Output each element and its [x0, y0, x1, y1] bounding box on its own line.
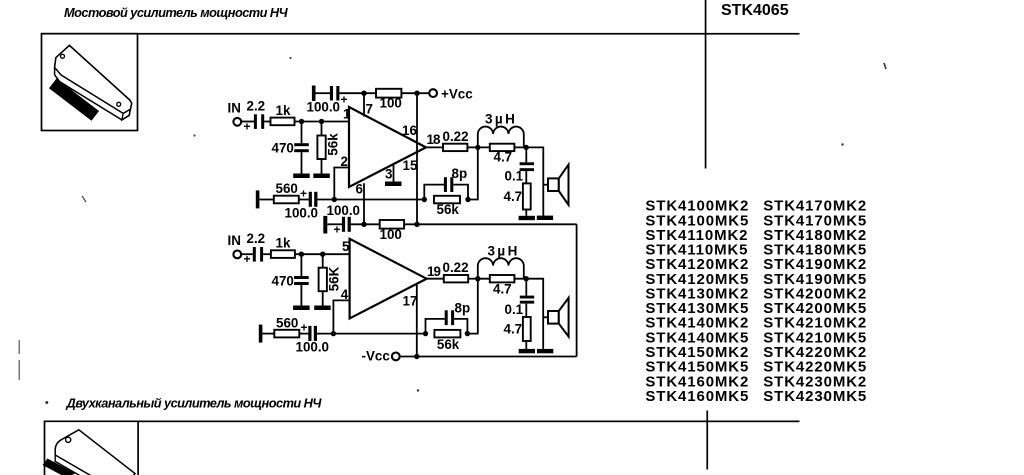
feedback rail wire (top) [317, 199, 424, 201]
svg-text:8p: 8p [455, 301, 471, 316]
mid rail wire right [404, 223, 576, 225]
svg-text:2.2: 2.2 [247, 231, 266, 246]
wire Vcc rail [339, 92, 376, 94]
svg-text:4.7: 4.7 [493, 282, 512, 297]
svg-text:560: 560 [276, 315, 298, 330]
svg-text:+Vcc: +Vcc [441, 87, 473, 102]
resistor 4.7 (zobel bottom) [504, 304, 531, 349]
output wire pin 18 [426, 146, 443, 148]
svg-text:0.1: 0.1 [505, 169, 524, 184]
wire to op-amp pin 1 [295, 121, 350, 123]
feedback riser from output (bottom) [467, 279, 477, 334]
wire input to cap (bottom) [241, 253, 253, 255]
svg-text:+: + [244, 120, 251, 134]
node 56k fb right (top) [465, 197, 470, 202]
+Vcc terminal [429, 87, 473, 102]
wire cap to resistor (bottom) [263, 253, 271, 255]
svg-text:470: 470 [272, 141, 294, 156]
resistor 4.7 parallel (top) [490, 144, 515, 165]
package box (bottom, clipped) [45, 421, 139, 475]
svg-text:100.0: 100.0 [327, 203, 361, 218]
resistor 100 (mid rail) [380, 220, 405, 242]
svg-text:-Vcc: -Vcc [362, 349, 391, 364]
svg-text:+: + [301, 321, 308, 335]
resistor 560 (bottom) [274, 315, 299, 337]
node mid rail / pins line [414, 222, 419, 227]
svg-text:8p: 8p [452, 166, 468, 181]
node 56k junction (bottom) [320, 252, 325, 257]
node 56k fb left (top) [422, 197, 427, 202]
feedback rail terminal bar (top) [256, 190, 260, 208]
inductor 3uH (bottom) [478, 244, 524, 279]
svg-text:4.7: 4.7 [494, 150, 513, 165]
capacitor 0.1 (zobel top) [505, 147, 535, 183]
capacitor 0.1 (zobel bottom) [505, 279, 535, 317]
node pin6/mid rail [361, 222, 366, 227]
svg-text:56k: 56k [326, 133, 341, 156]
wire rail to +Vcc terminal [401, 92, 429, 94]
wire bar to 560 [259, 199, 273, 201]
inductor 3uH (top) [478, 112, 524, 148]
node output (top) [475, 145, 480, 150]
svg-text:100: 100 [380, 96, 402, 111]
IC package drawing (bottom box, partial) [43, 430, 136, 475]
svg-text:IN: IN [228, 101, 241, 116]
wire to output node [467, 146, 478, 148]
svg-text:56k: 56k [437, 337, 460, 352]
node 56k fb right (bottom) [465, 331, 470, 336]
svg-text:15: 15 [403, 158, 418, 173]
svg-text:Двухканальный усилитель мощнос: Двухканальный усилитель мощности НЧ [66, 396, 323, 411]
bottom horizontal rule [45, 421, 800, 423]
-Vcc rail wire [400, 356, 577, 358]
mid rail wire left [351, 223, 380, 225]
ground (56k bottom) [314, 306, 331, 311]
svg-text:1k: 1k [276, 236, 291, 251]
svg-text:4.7: 4.7 [504, 322, 523, 337]
svg-text:2.2: 2.2 [247, 99, 266, 114]
svg-text:+: + [244, 252, 251, 266]
svg-text:560: 560 [276, 181, 298, 196]
svg-text:470: 470 [272, 274, 294, 289]
svg-text:56K: 56K [327, 266, 342, 291]
pin 4 wire step [333, 287, 349, 334]
svg-text:2: 2 [341, 154, 348, 169]
capacitor 8p (top) [424, 166, 468, 200]
svg-text:4.7: 4.7 [504, 189, 523, 204]
ground (pin 3) [385, 182, 402, 187]
resistor 1k (top) [271, 103, 295, 125]
svg-text:0.22: 0.22 [443, 129, 469, 144]
svg-text:0.22: 0.22 [443, 260, 469, 275]
node pin7 / rail [361, 91, 366, 96]
capacitor 470 (bottom) [272, 254, 309, 305]
pins 16/15 vertical line [416, 93, 418, 224]
ground (speaker top) [537, 216, 553, 220]
svg-text:56k: 56k [437, 202, 460, 217]
right border wire down [576, 224, 578, 356]
capacitor 100.0 (feedback bottom) [296, 321, 330, 355]
wire cap to resistor (top) [264, 121, 270, 123]
node output (bottom) [475, 276, 480, 281]
capacitor 100.0 (mid rail) [327, 203, 361, 237]
pin 3 ground stub [385, 164, 394, 182]
svg-text:IN: IN [228, 233, 241, 248]
feedback riser from output (top) [468, 147, 478, 199]
svg-text:100: 100 [380, 227, 402, 242]
svg-text:STK4160MK5: STK4160MK5 [645, 388, 749, 405]
node after LR (bottom) [524, 276, 529, 281]
resistor 100 (Vcc rail top) [376, 89, 402, 111]
wire to output node (bottom) [468, 278, 478, 280]
node input junction (bottom) [299, 252, 304, 257]
svg-text:19: 19 [427, 264, 441, 279]
svg-text:3µH: 3µH [488, 244, 520, 259]
input terminal IN (top) [228, 101, 242, 126]
capacitor 2.2 (bottom input coupling) [244, 247, 264, 266]
ground (zobel bottom) [519, 349, 535, 353]
resistor 4.7 (zobel top) [504, 171, 531, 216]
output wire pin 19 [427, 278, 444, 280]
wire input to cap (top) [241, 121, 254, 123]
wire bar to 560 (bottom) [262, 333, 274, 335]
svg-text:+: + [300, 187, 307, 201]
wire through 4.7 (top) [478, 146, 526, 148]
svg-text:3: 3 [385, 167, 392, 182]
input terminal IN (bottom) [228, 233, 242, 258]
resistor 1k (bottom) [271, 236, 295, 258]
svg-text:+: + [341, 93, 348, 107]
resistor 560 (top) [274, 181, 299, 203]
svg-text:100.0: 100.0 [296, 340, 330, 355]
svg-text:1k: 1k [276, 103, 291, 118]
wire through 4.7 (bottom) [478, 278, 526, 280]
resistor 56k feedback (bottom) [434, 330, 460, 352]
resistor 56k feedback (top) [434, 196, 460, 217]
capacitor 100.0 (Vcc decoupling top) [307, 86, 348, 115]
ground (470 bottom) [293, 306, 310, 311]
svg-text:0.1: 0.1 [505, 302, 524, 317]
wire to speaker branch (bottom) [526, 279, 543, 349]
IC package drawing (top box) [49, 45, 132, 120]
capacitor 470 (top) [272, 122, 309, 174]
resistor 4.7 parallel (bottom) [490, 275, 515, 297]
svg-text:STK4230MK5: STK4230MK5 [763, 388, 867, 405]
node after LR (top) [524, 145, 529, 150]
feedback rail wire (bottom) [317, 333, 426, 335]
-Vcc terminal [362, 349, 400, 364]
node pin2/rail [332, 197, 337, 202]
svg-text:3µH: 3µH [485, 112, 517, 127]
package box (top) [42, 34, 138, 131]
top vertical divider line [705, 0, 707, 169]
ground (470 top) [293, 174, 310, 179]
op-amp U1 (top triangle) [349, 107, 426, 187]
capacitor 8p (bottom) [426, 301, 471, 334]
+Vcc rail terminal bar (100.0 cap left) [312, 86, 316, 102]
mid rail terminal bar (100.0 cap left) [323, 216, 327, 234]
svg-text:4: 4 [341, 287, 349, 302]
svg-text:Мостовой усилитель мощности НЧ: Мостовой усилитель мощности НЧ [64, 5, 289, 20]
capacitor 100.0 (feedback top) [285, 187, 319, 221]
resistor 0.22 (top) [443, 129, 469, 151]
pin 6 vertical line [356, 182, 365, 225]
node rail/pin16 line [414, 91, 419, 96]
ground (speaker bottom) [537, 349, 553, 353]
wire to op-amp pin 5 [295, 253, 350, 255]
ground (zobel top) [519, 216, 535, 220]
speaker (top) [543, 165, 568, 205]
svg-text:18: 18 [427, 132, 442, 147]
pin 17 vertical line [403, 285, 418, 357]
resistor 56k input (top) [317, 122, 340, 174]
feedback rail terminal bar (bottom) [259, 325, 263, 343]
op-amp U2 (bottom triangle) [350, 239, 427, 319]
resistor 56k input (bottom) [319, 254, 342, 305]
top horizontal rule [41, 33, 800, 35]
ground (56k top) [313, 174, 330, 179]
node pin4/rail (bottom) [331, 331, 336, 336]
capacitor 2.2 (top input coupling) [244, 114, 265, 133]
svg-text:6: 6 [356, 182, 363, 197]
scan speck marks [19, 340, 20, 354]
node input junction (top) [299, 119, 304, 124]
svg-text:100.0: 100.0 [285, 206, 319, 221]
node -Vcc rail / pin 17 [414, 354, 419, 359]
svg-text:STK4065: STK4065 [721, 2, 789, 19]
svg-text:17: 17 [403, 294, 418, 309]
wire to speaker branch (top) [526, 147, 543, 215]
svg-text:7: 7 [366, 102, 373, 117]
pin 7 stub [364, 93, 373, 116]
node 56k junction (top) [319, 119, 324, 124]
speaker (bottom) [543, 298, 568, 337]
svg-text:16: 16 [402, 123, 417, 138]
bottom vertical divider line [706, 411, 708, 470]
svg-text:100.0: 100.0 [307, 100, 341, 115]
node 56k fb left (bottom) [423, 331, 428, 336]
resistor 0.22 (bottom) [443, 260, 469, 282]
pin 2 wire step [334, 154, 349, 200]
STK part number list [645, 198, 867, 405]
svg-text:+: + [334, 223, 341, 237]
